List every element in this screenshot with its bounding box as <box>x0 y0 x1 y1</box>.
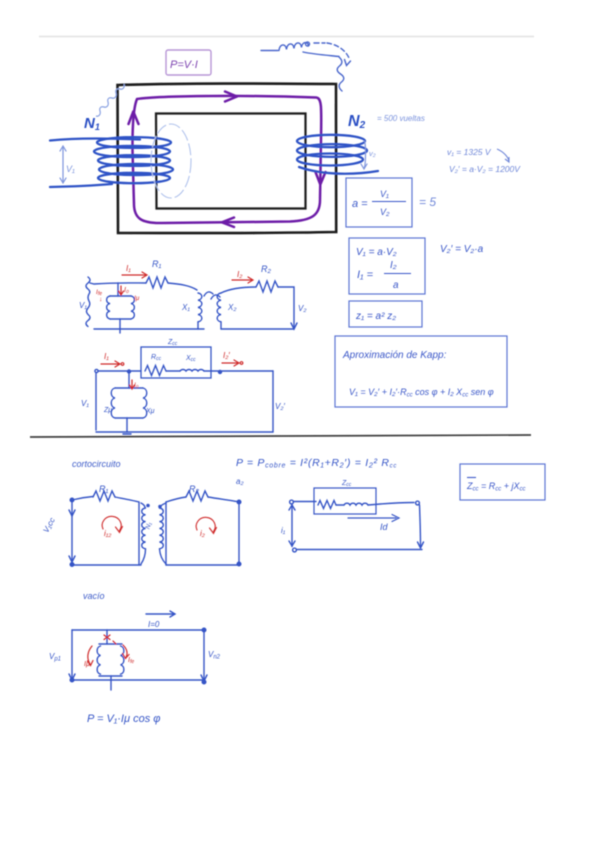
svg-text:R₂: R₂ <box>261 264 271 274</box>
svg-text:N2: N2 <box>348 113 366 131</box>
svg-text:cortocircuito: cortocircuito <box>72 459 121 469</box>
svg-text:I₁: I₁ <box>126 264 131 273</box>
svg-text:Vp1: Vp1 <box>49 652 61 663</box>
svg-text:V₁: V₁ <box>380 189 389 199</box>
svg-text:I=0: I=0 <box>148 620 160 629</box>
svg-text:= 5: = 5 <box>419 195 436 209</box>
svg-text:V₂′: V₂′ <box>275 402 285 411</box>
svg-text:V₂′ = a·V₂ = 1200V: V₂′ = a·V₂ = 1200V <box>449 164 521 174</box>
svg-text:I₁: I₁ <box>104 352 109 361</box>
svg-text:I₂: I₂ <box>390 260 397 271</box>
svg-text:i₂: i₂ <box>200 529 205 538</box>
svg-text:a: a <box>393 280 399 291</box>
svg-text:P=V·I: P=V·I <box>170 59 198 71</box>
svg-text:Aproximación de Kapp:: Aproximación de Kapp: <box>342 350 447 361</box>
svg-text:Zμ: Zμ <box>103 407 112 414</box>
svg-text:z₁ = a² z₂: z₁ = a² z₂ <box>355 311 396 322</box>
svg-text:a₂: a₂ <box>236 477 244 486</box>
svg-text:Iμ: Iμ <box>134 295 140 302</box>
svg-text:X₁: X₁ <box>181 303 190 312</box>
svg-text:N1: N1 <box>84 115 100 132</box>
svg-text:Zcc: Zcc <box>167 339 178 347</box>
svg-text:P = Pcobre = I²(R₁+R₂′) = I₂²: P = Pcobre = I²(R₁+R₂′) = I₂² Rcc <box>236 457 397 470</box>
svg-text:V₁cc: V₁cc <box>41 516 56 534</box>
svg-text:R₁: R₁ <box>99 484 108 494</box>
svg-text:Zcc: Zcc <box>341 480 352 488</box>
svg-text:Xμ: Xμ <box>145 408 155 415</box>
svg-text:Ife: Ife <box>128 657 134 665</box>
svg-text:I₀: I₀ <box>124 287 129 294</box>
svg-text:I₂: I₂ <box>237 270 242 279</box>
svg-text:Zcc = Rcc + jXcc: Zcc = Rcc + jXcc <box>466 481 526 493</box>
svg-text:Rcc: Rcc <box>151 354 162 362</box>
svg-text:Xcc: Xcc <box>185 355 196 363</box>
svg-text:V₂: V₂ <box>298 304 306 313</box>
svg-text:I₀: I₀ <box>134 382 139 389</box>
svg-text:X₂: X₂ <box>227 303 236 312</box>
svg-text:V₂′ = V₂·a: V₂′ = V₂·a <box>440 244 484 255</box>
svg-text:N₁: N₁ <box>145 522 154 531</box>
svg-text:V₁ = a·V₂: V₁ = a·V₂ <box>356 247 397 258</box>
svg-text:V₁: V₁ <box>79 301 87 310</box>
svg-text:v₁ = 1325 V: v₁ = 1325 V <box>447 147 492 157</box>
svg-text:↓: ↓ <box>99 296 102 303</box>
svg-text:vacío: vacío <box>83 591 105 601</box>
svg-text:V₁ = V₂′ + I₂′·Rcc cos φ + I₂: V₁ = V₂′ + I₂′·Rcc cos φ + I₂ Xcc sen φ <box>349 387 494 399</box>
svg-text:i₁₂: i₁₂ <box>104 529 111 538</box>
svg-text:P = V₁·Iμ cos φ: P = V₁·Iμ cos φ <box>87 713 160 725</box>
svg-text:R₂: R₂ <box>189 484 199 494</box>
svg-text:I₁ =: I₁ = <box>357 269 374 281</box>
svg-text:V₁: V₁ <box>81 399 89 408</box>
svg-text:v₂: v₂ <box>369 149 376 158</box>
svg-text:R₁: R₁ <box>152 259 161 269</box>
svg-text:V₂: V₂ <box>380 207 390 217</box>
svg-text:I₂′: I₂′ <box>223 351 230 360</box>
svg-text:= 500 vueltas: = 500 vueltas <box>377 114 425 123</box>
svg-text:Iμ: Iμ <box>84 661 90 668</box>
svg-text:V₁: V₁ <box>66 164 75 174</box>
svg-text:i₁: i₁ <box>281 526 286 535</box>
svg-text:Id: Id <box>380 522 389 532</box>
svg-text:Vn2: Vn2 <box>208 650 221 661</box>
svg-text:a =: a = <box>352 198 368 210</box>
